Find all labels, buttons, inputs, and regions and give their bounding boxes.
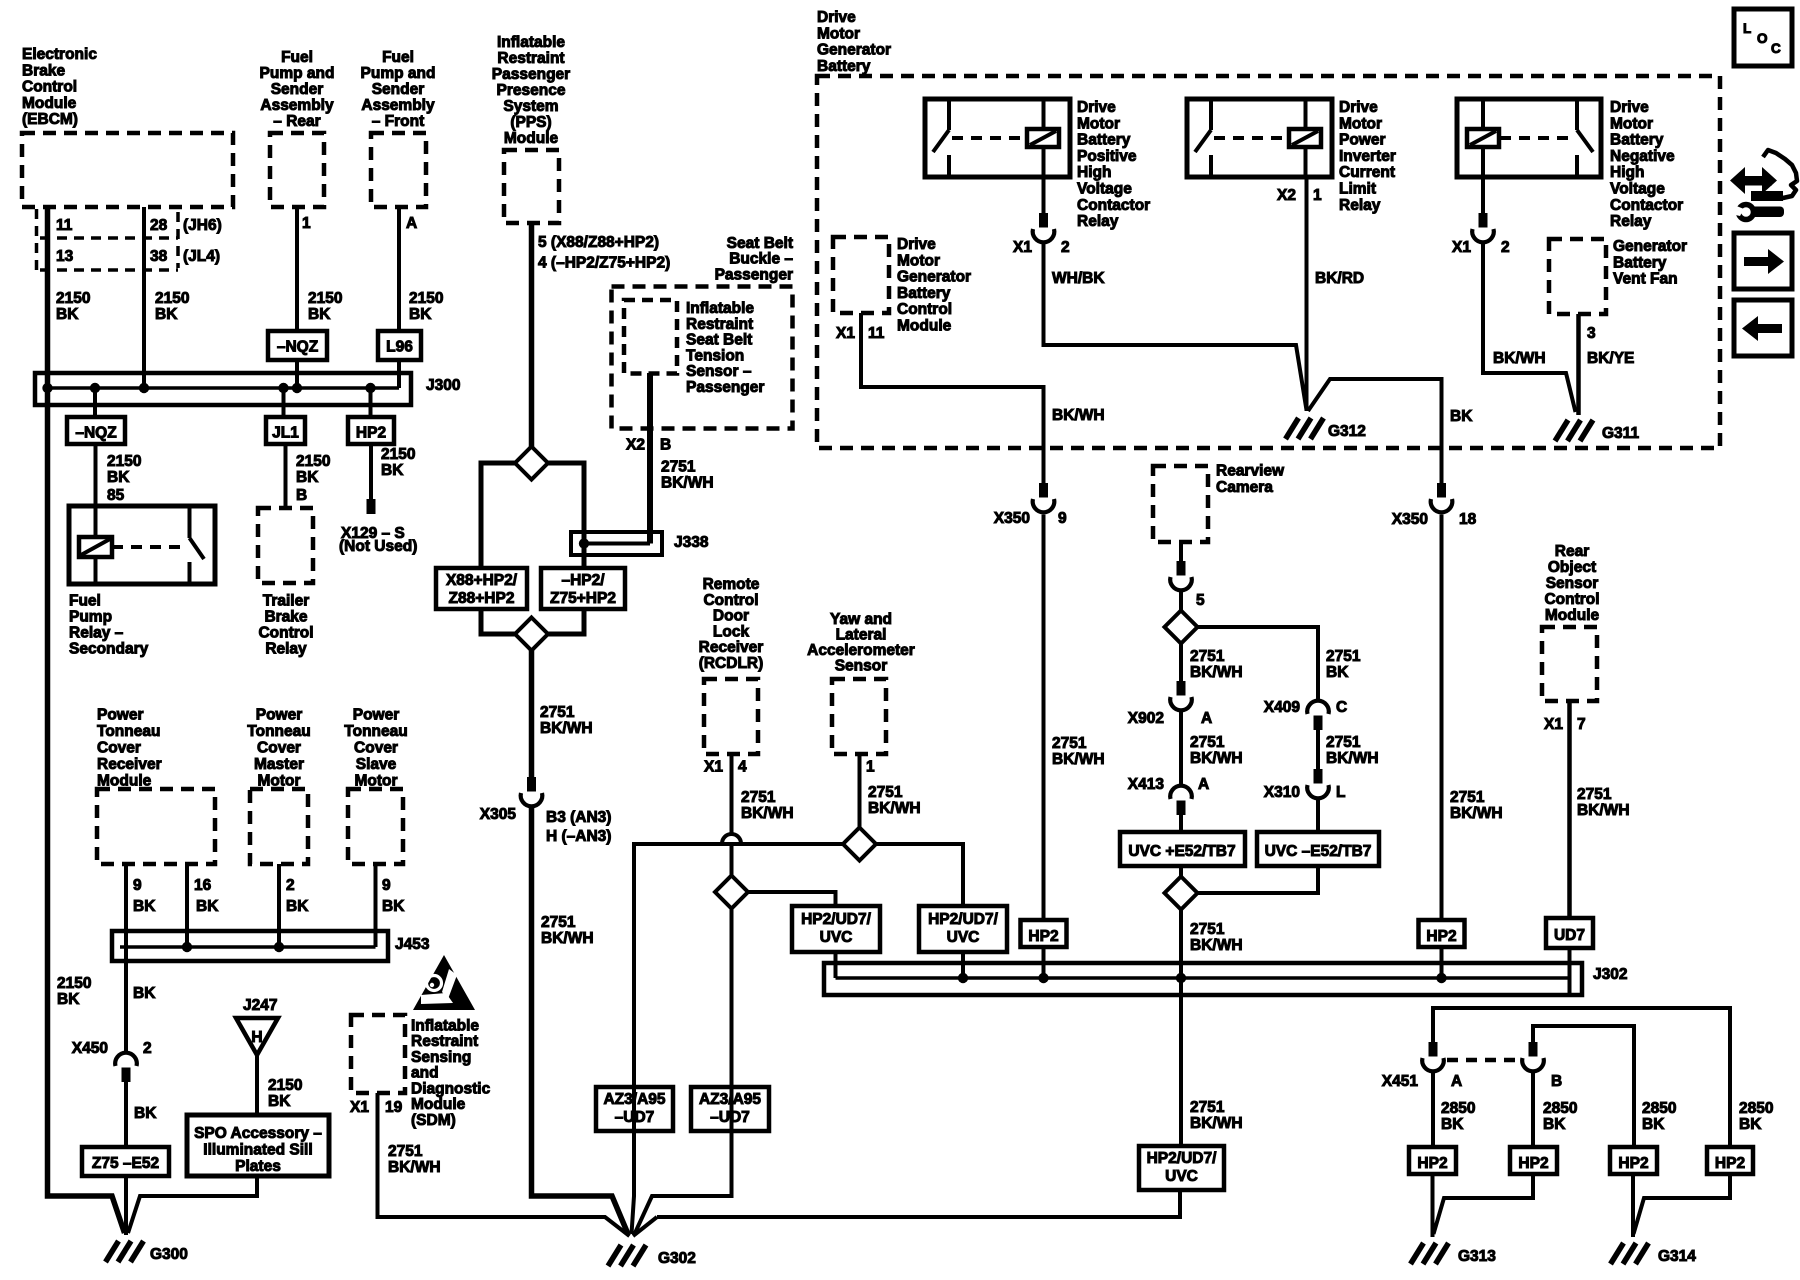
option box HP2 (ground 3) <box>1610 1147 1657 1174</box>
wire HP2 box to J302 bus <box>1440 947 1444 978</box>
svg-text:Lock: Lock <box>713 623 750 640</box>
svg-text:Lateral: Lateral <box>836 627 887 644</box>
svg-text:High: High <box>1077 164 1111 181</box>
svg-text:BK: BK <box>1441 1116 1464 1133</box>
svg-text:BK: BK <box>57 991 80 1008</box>
svg-text:28: 28 <box>150 217 168 234</box>
svg-text:BK/WH: BK/WH <box>1450 805 1503 822</box>
svg-text:Remote: Remote <box>703 576 760 593</box>
svg-text:Sensing: Sensing <box>411 1049 471 1066</box>
svg-text:BK: BK <box>1642 1116 1665 1133</box>
svg-text:BK: BK <box>56 306 79 323</box>
svg-text:UVC –E52/TB7: UVC –E52/TB7 <box>1265 843 1372 860</box>
svg-text:BK: BK <box>133 898 156 915</box>
ground G302 <box>608 1245 621 1266</box>
svg-text:2150: 2150 <box>107 453 141 470</box>
svg-text:Drive: Drive <box>1610 99 1649 116</box>
svg-text:Electronic: Electronic <box>22 46 97 63</box>
svg-text:Tension: Tension <box>686 347 744 364</box>
wire RCDLR pin 4 down with hop over ground line (2751 BK/WH) <box>730 754 734 833</box>
svg-text:Diagnostic: Diagnostic <box>411 1080 491 1097</box>
wire -NQZ to J300 <box>295 360 299 388</box>
ground G302 V notch in long wire <box>633 1217 657 1236</box>
svg-text:9: 9 <box>1058 510 1067 527</box>
fuel pump relay coil to box bottom wire <box>94 557 98 584</box>
svg-text:2751: 2751 <box>1052 735 1087 752</box>
option box HP2/UD7/UVC (right) <box>919 906 1007 952</box>
svg-text:BK: BK <box>1543 1116 1566 1133</box>
svg-text:Cover: Cover <box>354 740 398 757</box>
svg-text:System: System <box>503 98 558 115</box>
svg-text:Passenger: Passenger <box>686 379 764 396</box>
module Power Tonneau Cover Master Motor dashed box <box>250 789 308 864</box>
svg-text:Restraint: Restraint <box>411 1033 478 1050</box>
wire receiver pin 16 to J453 (BK) <box>185 864 189 947</box>
svg-text:16: 16 <box>194 877 212 894</box>
svg-text:BK: BK <box>268 1093 291 1110</box>
option box UVC +E52/TB7 <box>1120 832 1245 866</box>
junction block J300 <box>35 373 411 405</box>
svg-text:Limit: Limit <box>1339 181 1376 198</box>
wire J300 to JL1 <box>282 388 286 417</box>
module Generator Battery Vent Fan dashed box <box>1549 239 1606 314</box>
option box HP2/UD7/UVC (left) <box>792 906 880 952</box>
svg-text:2751: 2751 <box>1190 1099 1225 1116</box>
connector X450 (pin from below) <box>122 1068 131 1083</box>
svg-text:UD7: UD7 <box>1554 927 1585 944</box>
svg-text:X1: X1 <box>1013 239 1032 256</box>
svg-text:UVC: UVC <box>947 929 980 946</box>
wire X305 to G302 <box>532 808 629 1234</box>
svg-text:Motor: Motor <box>1077 115 1120 132</box>
connector X305 (pin from above) <box>527 777 536 792</box>
svg-text:Inflatable: Inflatable <box>497 34 565 51</box>
svg-text:Generator: Generator <box>817 42 891 59</box>
relay 3 switch <box>1575 99 1579 130</box>
module Fuel Pump and Sender Assembly - Rear dashed box <box>270 133 324 207</box>
module Rearview Camera dashed box <box>1153 466 1208 542</box>
fuel pump relay coil pin 85 wire <box>94 506 98 538</box>
svg-text:AZ3/A95: AZ3/A95 <box>699 1091 761 1108</box>
svg-text:Camera: Camera <box>1216 479 1273 496</box>
svg-text:Z88+HP2: Z88+HP2 <box>449 590 515 607</box>
splice diamond (RCDLR) <box>715 876 748 909</box>
svg-text:Contactor: Contactor <box>1610 197 1683 214</box>
option box JL1 <box>266 417 305 444</box>
svg-text:2150: 2150 <box>57 975 91 992</box>
relay Fuel Pump Relay - Secondary box <box>69 506 215 584</box>
svg-text:BK/WH: BK/WH <box>1052 407 1105 424</box>
relay Trailer Brake Control Relay dashed box <box>258 508 313 583</box>
svg-text:(EBCM): (EBCM) <box>22 111 78 128</box>
wire relay 1 to connector X1 2 <box>1042 177 1046 226</box>
splice diamond (camera ground) <box>1165 877 1198 910</box>
svg-text:Z75+HP2: Z75+HP2 <box>550 590 616 607</box>
wire diamond to X88+HP2 box <box>481 463 515 568</box>
ground G300 <box>106 1241 119 1262</box>
J300 junction dots <box>42 383 52 393</box>
wire HP2 2 to G313 <box>1434 1174 1534 1234</box>
wire HP2/UD7/UVC left box to J302 bus <box>834 952 838 978</box>
svg-text:2751: 2751 <box>1190 648 1225 665</box>
svg-text:19: 19 <box>385 1099 403 1116</box>
option box UD7 <box>1546 918 1593 948</box>
svg-text:18: 18 <box>1459 511 1477 528</box>
connector X409 C <box>1314 716 1323 731</box>
svg-text:Relay –: Relay – <box>69 624 124 641</box>
next-page arrow box (right) <box>1734 233 1792 289</box>
svg-text:(Not Used): (Not Used) <box>339 538 417 555</box>
svg-text:Module: Module <box>22 95 77 112</box>
svg-text:Drive: Drive <box>1339 99 1378 116</box>
wire X310 to UVC -E52/TB7 box <box>1316 800 1320 832</box>
svg-text:BK/WH: BK/WH <box>1190 937 1243 954</box>
svg-text:– Front: – Front <box>372 113 425 130</box>
wire X451 A loop line <box>1433 1008 1730 1147</box>
splice diamond (PPS lower) <box>515 618 548 651</box>
wire X1 2 to G312 (WH/BK) <box>1044 244 1307 410</box>
svg-text:85: 85 <box>107 487 125 504</box>
svg-text:2150: 2150 <box>308 290 342 307</box>
svg-text:HP2/UD7/: HP2/UD7/ <box>1147 1150 1217 1167</box>
wire X88 box to lower diamond <box>481 609 515 634</box>
sensor Inflatable Restraint Seat Belt Tension Sensor - Passenger dashed box <box>624 300 677 374</box>
svg-text:C: C <box>1771 41 1781 56</box>
svg-text:BK: BK <box>196 898 219 915</box>
svg-text:(JL4): (JL4) <box>183 248 220 265</box>
svg-text:BK: BK <box>107 469 130 486</box>
svg-text:9: 9 <box>382 877 391 894</box>
svg-text:Negative: Negative <box>1610 148 1675 165</box>
svg-text:–UD7: –UD7 <box>710 1109 750 1126</box>
svg-text:2751: 2751 <box>741 789 776 806</box>
svg-text:SPO Accessory –: SPO Accessory – <box>194 1125 322 1142</box>
connector X1 2 (relay 1) <box>1039 213 1048 228</box>
svg-text:X1: X1 <box>1452 239 1471 256</box>
svg-text:BK/WH: BK/WH <box>1326 750 1379 767</box>
svg-text:G313: G313 <box>1458 1248 1496 1265</box>
svg-text:2751: 2751 <box>388 1143 423 1160</box>
svg-text:13: 13 <box>56 248 74 265</box>
svg-text:X451: X451 <box>1382 1073 1419 1090</box>
option box HP2/UD7/UVC (lower) <box>1139 1146 1224 1190</box>
svg-text:Battery: Battery <box>897 285 951 302</box>
svg-text:4 (–HP2/Z75+HP2): 4 (–HP2/Z75+HP2) <box>538 255 670 272</box>
svg-text:Current: Current <box>1339 164 1395 181</box>
svg-text:X2: X2 <box>626 437 645 454</box>
svg-text:Motor: Motor <box>1610 115 1653 132</box>
wire J300 to -NQZ lower <box>93 388 97 417</box>
wire camera to connector 5 <box>1179 542 1183 574</box>
svg-text:2850: 2850 <box>1543 1100 1577 1117</box>
connector X129 dead-end stub <box>367 499 376 514</box>
svg-text:2751: 2751 <box>1190 734 1225 751</box>
svg-text:AZ3/A95: AZ3/A95 <box>603 1091 665 1108</box>
svg-text:Relay: Relay <box>1339 197 1381 214</box>
svg-text:38: 38 <box>150 248 168 265</box>
option box HP2 (ground 4) <box>1707 1147 1753 1174</box>
option box -NQZ (upper) <box>268 331 327 360</box>
svg-text:Fuel: Fuel <box>69 592 101 609</box>
svg-text:–NQZ: –NQZ <box>75 425 117 442</box>
svg-text:HP2: HP2 <box>1518 1155 1548 1172</box>
svg-text:Drive: Drive <box>817 9 856 26</box>
svg-text:2751: 2751 <box>1326 648 1361 665</box>
svg-text:X305: X305 <box>480 806 517 823</box>
previous-page arrow box (left) <box>1734 300 1792 356</box>
svg-text:2150: 2150 <box>56 290 90 307</box>
option box AZ3/A95 -UD7 (right) <box>691 1087 769 1131</box>
svg-text:–NQZ: –NQZ <box>277 339 319 356</box>
svg-text:L: L <box>1336 784 1345 801</box>
EBCM connector pin band <box>37 209 179 270</box>
ground bus line left segment to G302 drop <box>632 844 844 1234</box>
splice diamond (yaw / ground line) <box>843 828 876 861</box>
svg-text:HP2: HP2 <box>1426 928 1456 945</box>
wire HP2 1 to G313 <box>1431 1174 1435 1237</box>
wire X409 to X310 (2751 BK/WH) <box>1316 717 1320 782</box>
wire -HP2 box to lower diamond <box>548 609 584 634</box>
svg-text:UVC: UVC <box>1165 1168 1198 1185</box>
ground G314 <box>1611 1243 1624 1264</box>
module Power Tonneau Cover Slave Motor dashed box <box>348 789 403 864</box>
svg-text:Power: Power <box>97 707 144 724</box>
svg-text:BK/WH: BK/WH <box>541 930 594 947</box>
svg-text:Buckle –: Buckle – <box>729 251 793 268</box>
svg-text:X1: X1 <box>704 759 723 776</box>
relay 2 coil <box>1304 99 1308 129</box>
svg-text:Brake: Brake <box>22 62 65 79</box>
svg-text:Battery: Battery <box>817 58 871 75</box>
svg-text:Control: Control <box>1544 591 1599 608</box>
wire L96 to J300 <box>397 360 401 388</box>
wire -NQZ to fuel pump relay coil pin 85 (2150 BK) <box>94 444 98 506</box>
svg-text:HP2: HP2 <box>356 425 386 442</box>
svg-text:2150: 2150 <box>268 1077 302 1094</box>
svg-text:BK: BK <box>308 306 331 323</box>
svg-text:A: A <box>406 215 417 232</box>
svg-text:Plates: Plates <box>235 1158 281 1175</box>
svg-text:L96: L96 <box>386 339 413 356</box>
J302 junction dots <box>958 973 968 983</box>
svg-text:O: O <box>1757 31 1768 46</box>
wire rear object module pin 7 to UD7 box (2751 BK/WH) <box>1567 701 1572 918</box>
svg-text:Sensor: Sensor <box>1546 575 1599 592</box>
svg-text:Drive: Drive <box>897 236 936 253</box>
svg-text:Door: Door <box>713 608 749 625</box>
svg-text:Pump: Pump <box>69 608 112 625</box>
wire diamond to -HP2 box through J338 <box>548 463 584 568</box>
wire relay 3 to connector X1 2 <box>1481 177 1485 226</box>
svg-text:Object: Object <box>1548 559 1596 576</box>
option box HP2 (X350 18 run) <box>1419 920 1465 947</box>
option box HP2 (X350 9 run) <box>1021 920 1067 947</box>
svg-text:2: 2 <box>1501 239 1510 256</box>
svg-text:X902: X902 <box>1128 710 1164 727</box>
svg-text:2: 2 <box>1061 239 1070 256</box>
splice diamond (camera) <box>1165 611 1198 644</box>
svg-text:X413: X413 <box>1128 776 1165 793</box>
wire EBCM pin 11 to J300 to G300 (2150 BK) <box>48 207 125 1233</box>
module Drive Motor Generator Battery Control Module dashed box <box>833 237 889 313</box>
svg-text:(JH6): (JH6) <box>183 217 222 234</box>
svg-text:Assembly: Assembly <box>361 97 435 114</box>
wire HP2/UD7/UVC right box to J302 bus <box>961 952 965 978</box>
svg-text:Module: Module <box>1545 607 1600 624</box>
svg-text:Cover: Cover <box>257 740 301 757</box>
svg-text:Sensor: Sensor <box>835 658 888 675</box>
svg-text:BK: BK <box>382 898 405 915</box>
svg-text:2751: 2751 <box>541 914 576 931</box>
svg-text:Fuel: Fuel <box>382 49 414 66</box>
ground G313 <box>1411 1243 1424 1264</box>
svg-text:2751: 2751 <box>1450 789 1485 806</box>
svg-text:2751: 2751 <box>1326 734 1361 751</box>
svg-text:BK/WH: BK/WH <box>1190 664 1243 681</box>
svg-text:UVC +E52/TB7: UVC +E52/TB7 <box>1128 843 1235 860</box>
option box UVC -E52/TB7 <box>1257 832 1379 866</box>
relay Drive Motor Battery Positive High Voltage Contactor Relay box <box>925 99 1070 177</box>
svg-text:BK/WH: BK/WH <box>540 720 593 737</box>
wire X350 18 to HP2 box (2751 BK/WH) <box>1440 515 1444 921</box>
module Rear Object Sensor Control Module dashed box <box>1542 627 1597 701</box>
relay 3 actuation dashed line <box>1500 136 1574 140</box>
svg-text:BK/WH: BK/WH <box>388 1159 441 1176</box>
svg-text:Power: Power <box>1339 132 1386 149</box>
module EBCM (Electronic Brake Control Module) dashed box <box>22 133 233 207</box>
svg-text:Voltage: Voltage <box>1077 181 1132 198</box>
svg-text:Receiver: Receiver <box>699 639 764 656</box>
wire camera diamond to J302 and HP2/UD7/UVC box (2751 BK/WH) <box>1179 909 1183 1146</box>
connector X902 A <box>1177 681 1186 696</box>
svg-text:1: 1 <box>1313 187 1322 204</box>
svg-text:BK/RD: BK/RD <box>1315 270 1364 287</box>
svg-text:H: H <box>251 1029 262 1046</box>
svg-text:BK/WH: BK/WH <box>1052 751 1105 768</box>
wire HP2 to X129 (2150 BK, not used) <box>369 444 373 501</box>
svg-text:High: High <box>1610 164 1644 181</box>
junction block J338 <box>571 532 662 555</box>
svg-text:Generator: Generator <box>1613 238 1687 255</box>
svg-text:3: 3 <box>1587 325 1596 342</box>
svg-text:Seat Belt: Seat Belt <box>686 332 752 349</box>
svg-text:2751: 2751 <box>868 784 903 801</box>
svg-text:B3 (AN3): B3 (AN3) <box>546 809 611 826</box>
svg-text:2751: 2751 <box>661 459 696 476</box>
wire X902 to X413 (2751 BK/WH) <box>1179 712 1183 784</box>
svg-text:2850: 2850 <box>1441 1100 1475 1117</box>
svg-text:Receiver: Receiver <box>97 756 162 773</box>
svg-text:Sensor –: Sensor – <box>686 363 752 380</box>
svg-text:Passenger: Passenger <box>492 66 570 83</box>
svg-text:Passenger: Passenger <box>715 266 793 283</box>
svg-text:Control: Control <box>703 592 758 609</box>
svg-text:BK: BK <box>1326 664 1349 681</box>
svg-text:A: A <box>1201 710 1212 727</box>
svg-text:X1: X1 <box>1544 716 1563 733</box>
svg-text:BK: BK <box>1739 1116 1762 1133</box>
svg-text:Vent Fan: Vent Fan <box>1613 271 1678 288</box>
svg-text:Battery: Battery <box>1613 254 1667 271</box>
svg-text:2150: 2150 <box>409 290 443 307</box>
svg-text:HP2: HP2 <box>1618 1155 1648 1172</box>
module RCDLR dashed box <box>704 679 758 754</box>
fuel pump relay coil <box>79 537 112 557</box>
svg-text:HP2/UD7/: HP2/UD7/ <box>801 911 871 928</box>
svg-text:5 (X88/Z88+HP2): 5 (X88/Z88+HP2) <box>538 234 659 251</box>
module Fuel Pump and Sender Assembly - Front dashed box <box>371 133 426 207</box>
svg-text:Control: Control <box>258 624 313 641</box>
wire control module pin 11 to X350 9 (BK/WH) <box>861 313 1044 496</box>
wire lower HP2/UD7/UVC box to G302 long line <box>657 1190 1180 1217</box>
svg-text:Relay: Relay <box>1077 213 1119 230</box>
relay 2 switch <box>1209 99 1213 130</box>
module Drive Motor Generator Battery dashed box <box>817 76 1720 448</box>
option box -HP2/Z75+HP2 <box>541 568 625 609</box>
svg-text:Slave: Slave <box>356 756 397 773</box>
wire PPS pin to splice diamond <box>529 223 535 447</box>
J338 junction dot <box>579 538 589 548</box>
svg-text:(SDM): (SDM) <box>411 1112 456 1129</box>
connector X310 L <box>1314 769 1323 784</box>
wire camera diamond right branch to X409 (2751 BK) <box>1197 627 1318 699</box>
svg-text:Assembly: Assembly <box>260 97 334 114</box>
ground G312 <box>1286 418 1299 439</box>
svg-text:G300: G300 <box>150 1246 188 1263</box>
svg-text:Cover: Cover <box>97 740 141 757</box>
svg-text:BK: BK <box>296 469 319 486</box>
svg-text:Master: Master <box>254 756 304 773</box>
svg-text:1: 1 <box>302 215 311 232</box>
wire X413 to UVC +E52/TB7 box <box>1179 802 1183 832</box>
svg-text:1: 1 <box>866 759 875 776</box>
svg-text:B: B <box>1551 1073 1562 1090</box>
wire X451 A to HP2 (2850 BK) <box>1431 1073 1435 1147</box>
svg-text:9: 9 <box>133 877 142 894</box>
option box HP2 (left column) <box>348 417 394 444</box>
fuel pump relay switch <box>188 506 192 538</box>
option box HP2 (ground 2) <box>1510 1147 1557 1174</box>
wire slave motor pin 9 to J453 (BK) <box>374 864 378 947</box>
wire X1 2 to G311 (BK/WH) <box>1483 244 1576 412</box>
svg-text:Voltage: Voltage <box>1610 181 1665 198</box>
svg-text:Module: Module <box>504 130 559 147</box>
connector X413 A <box>1177 801 1186 816</box>
svg-text:Z75 –E52: Z75 –E52 <box>92 1155 159 1172</box>
wire HP2 3 to G314 <box>1631 1174 1635 1237</box>
wire relay 2 pin 1 to G312 (BK/RD) <box>1305 177 1309 411</box>
svg-text:X350: X350 <box>1392 511 1428 528</box>
svg-text:Relay: Relay <box>265 640 307 657</box>
svg-text:X310: X310 <box>1264 784 1300 801</box>
option box HP2 (ground 1) <box>1409 1147 1456 1174</box>
svg-text:Yaw and: Yaw and <box>830 611 892 628</box>
svg-text:B: B <box>660 437 671 454</box>
svg-text:Motor: Motor <box>817 25 860 42</box>
wire UVC- box to lower diamond <box>1198 866 1318 893</box>
wire tension sensor to J338 (2751 BK/WH) via pin X2 B <box>647 373 653 544</box>
svg-text:Power: Power <box>256 707 303 724</box>
svg-text:X1: X1 <box>350 1099 369 1116</box>
wire HP2 4 to G314 <box>1634 1174 1731 1234</box>
LOC legend box <box>1734 9 1792 66</box>
svg-text:G312: G312 <box>1328 423 1366 440</box>
svg-text:Accelerometer: Accelerometer <box>807 642 915 659</box>
svg-text:Restraint: Restraint <box>497 50 564 67</box>
svg-text:J247: J247 <box>243 997 277 1014</box>
svg-text:Generator: Generator <box>897 269 971 286</box>
svg-text:4: 4 <box>738 759 747 776</box>
